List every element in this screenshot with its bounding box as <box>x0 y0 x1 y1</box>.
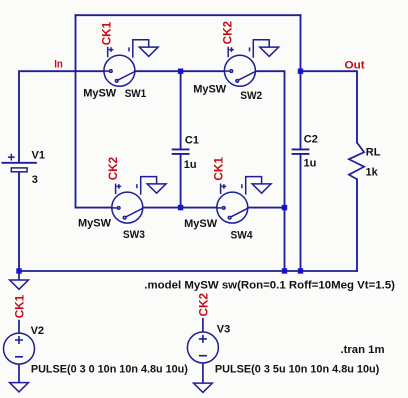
svg-text:CK1: CK1 <box>211 157 225 181</box>
ground flag of SW3 control <box>141 177 157 195</box>
switch U: SW1 <box>104 40 158 87</box>
svg-text:MySW: MySW <box>78 217 112 229</box>
wire C1 column upper <box>180 71 182 149</box>
wire C2 column upper <box>300 15 302 149</box>
wire bottom rail <box>19 270 357 272</box>
svg-text:SW4: SW4 <box>231 230 254 242</box>
voltage source V2 <box>4 320 35 383</box>
svg-text:SW2: SW2 <box>240 90 262 102</box>
capacitor C2 <box>292 149 310 154</box>
svg-text:SW3: SW3 <box>123 229 145 241</box>
svg-text:MySW: MySW <box>193 84 227 96</box>
wire SW2 out down <box>255 71 284 271</box>
svg-text:.tran 1m: .tran 1m <box>341 344 385 356</box>
wire C1 column lower <box>180 154 182 208</box>
capacitor C1 <box>172 149 190 154</box>
resistor RL <box>349 143 364 180</box>
svg-text:CK2: CK2 <box>220 21 234 45</box>
switch U: SW4 <box>217 177 271 224</box>
junction node dots <box>16 69 303 274</box>
svg-text:CK1: CK1 <box>13 295 27 319</box>
ground flag of SW1 control <box>133 40 149 58</box>
wire SW4 out <box>248 207 285 209</box>
ground flag below V3 <box>194 383 213 392</box>
svg-text:In: In <box>54 59 63 71</box>
svg-text:1k: 1k <box>366 167 379 179</box>
switch U: SW2 <box>224 40 278 87</box>
wire In: V1 to SW1 <box>19 71 104 162</box>
ground flag of SW4 control <box>246 177 262 195</box>
wire V1 bottom <box>18 172 20 271</box>
ground flag below V2 <box>10 383 29 392</box>
svg-text:V1: V1 <box>32 150 45 162</box>
svg-text:1u: 1u <box>304 158 317 170</box>
svg-text:CK2: CK2 <box>197 293 211 317</box>
svg-text:C2: C2 <box>304 134 318 146</box>
svg-text:SW1: SW1 <box>125 88 147 100</box>
voltage source V3 <box>187 318 218 383</box>
wire top rail <box>76 14 301 16</box>
svg-text:MySW: MySW <box>184 218 218 230</box>
wire Out to RL <box>301 71 358 142</box>
svg-text:V3: V3 <box>217 324 230 336</box>
svg-text:1u: 1u <box>184 159 197 171</box>
svg-text:C1: C1 <box>185 134 199 146</box>
wire SW1 to SW2 <box>135 70 225 72</box>
svg-text:RL: RL <box>366 146 381 158</box>
svg-text:CK2: CK2 <box>106 157 120 181</box>
wire RL bottom <box>356 179 358 271</box>
svg-text:MySW: MySW <box>83 88 117 100</box>
svg-text:PULSE(0 3 0 10n 10n 4.8u 10u): PULSE(0 3 0 10n 10n 4.8u 10u) <box>31 363 188 375</box>
battery V1 <box>2 154 37 172</box>
svg-text:.model MySW sw(Ron=0.1 Roff=1: .model MySW sw(Ron=0.1 Roff=10Meg Vt=1.5… <box>144 279 395 291</box>
wire left drop to SW3 <box>76 15 112 207</box>
svg-text:V2: V2 <box>31 325 44 337</box>
wire SW3 to SW4 <box>143 207 217 209</box>
ground flag of SW2 control <box>253 40 269 58</box>
wire C2 column lower <box>300 154 302 271</box>
svg-text:PULSE(0 3 5u 10n 10n 4.8u 10u): PULSE(0 3 5u 10n 10n 4.8u 10u) <box>215 363 380 375</box>
svg-text:CK1: CK1 <box>100 22 114 46</box>
switch U: SW3 <box>112 177 166 224</box>
svg-text:Out: Out <box>345 60 366 72</box>
svg-text:3: 3 <box>32 174 38 186</box>
ground flag on bottom rail <box>10 271 29 289</box>
